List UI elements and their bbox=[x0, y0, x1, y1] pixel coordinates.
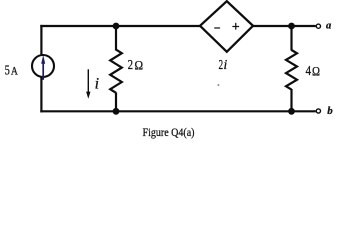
wire right branch lower bbox=[290, 89, 292, 111]
svg-text:5: 5 bbox=[5, 64, 10, 79]
current source I1 circle bbox=[32, 55, 54, 77]
svg-text:2: 2 bbox=[128, 58, 133, 73]
stray dot artifact bbox=[217, 84, 219, 86]
svg-text:i: i bbox=[224, 57, 228, 72]
junction dot top middle bbox=[113, 23, 120, 30]
svg-text:A: A bbox=[11, 65, 18, 78]
junction dot top right bbox=[288, 23, 295, 30]
wire left branch lower bbox=[40, 77, 42, 113]
svg-text:2: 2 bbox=[219, 57, 224, 72]
wire bottom rail bbox=[40, 110, 316, 112]
terminal b open circle bbox=[316, 109, 320, 113]
resistor R2 4ohm zigzag bbox=[286, 50, 297, 90]
wire middle branch lower bbox=[115, 93, 117, 112]
wire top rail left (source to dependent source) bbox=[40, 25, 201, 27]
svg-text:i: i bbox=[95, 75, 99, 92]
svg-text:−: − bbox=[214, 22, 221, 37]
wire middle branch upper bbox=[115, 26, 117, 51]
svg-text:+: + bbox=[232, 20, 240, 35]
svg-text:Ω: Ω bbox=[312, 65, 320, 79]
dependent source U1 diamond bbox=[200, 1, 253, 52]
junction dot bottom right bbox=[288, 108, 295, 115]
terminal a open circle bbox=[316, 24, 320, 28]
wire top rail right (dependent source to terminal a) bbox=[252, 25, 316, 27]
resistor R1 2ohm zigzag bbox=[110, 50, 122, 93]
current source I1 arrow (navy) bbox=[41, 55, 45, 80]
svg-text:4: 4 bbox=[306, 64, 312, 79]
svg-text:b: b bbox=[327, 105, 333, 117]
svg-text:Figure Q4(a): Figure Q4(a) bbox=[143, 125, 195, 139]
wire right branch upper bbox=[290, 26, 292, 51]
svg-text:Ω: Ω bbox=[135, 59, 144, 73]
wire left branch upper bbox=[40, 25, 42, 56]
svg-text:a: a bbox=[326, 20, 331, 31]
current arrow i bbox=[86, 69, 90, 99]
junction dot bottom middle bbox=[113, 108, 120, 115]
